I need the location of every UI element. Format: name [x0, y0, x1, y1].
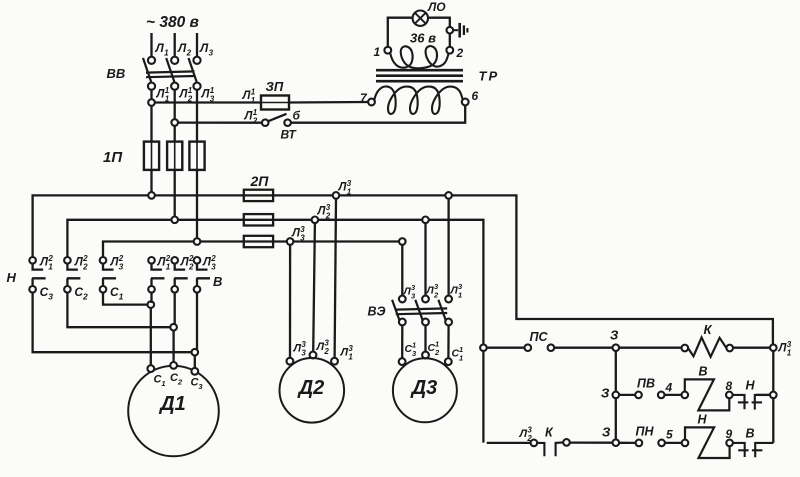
svg-text:1: 1 [787, 349, 792, 358]
wire PV to coil V [665, 394, 682, 396]
coil K right terminal [726, 345, 733, 352]
wire C2 to column 2 [67, 293, 170, 328]
svg-text:~ 380 в: ~ 380 в [146, 14, 199, 31]
wire tap L2' to switch VT [178, 121, 262, 123]
wire L3 to fuse [196, 90, 198, 143]
svg-text:Л: Л [177, 41, 187, 55]
svg-text:ВТ: ВТ [281, 128, 298, 142]
node 3 top [613, 344, 620, 351]
switch VV lower contact L3' [193, 83, 200, 90]
bus A wire [33, 195, 773, 344]
contact K [537, 443, 544, 456]
wire node3 vertical [615, 351, 617, 439]
svg-text:ПН: ПН [636, 425, 655, 439]
svg-text:5: 5 [666, 428, 673, 442]
svg-text:Л: Л [293, 343, 302, 355]
svg-text:Л: Л [155, 41, 165, 55]
svg-text:Л: Л [519, 428, 528, 440]
svg-text:4: 4 [665, 381, 673, 395]
junction column2 [170, 324, 177, 331]
wire bus B to D2 [313, 223, 315, 352]
svg-text:В: В [746, 427, 755, 441]
wire bus A to D2 [335, 199, 336, 358]
svg-text:3: 3 [301, 349, 306, 358]
svg-text:1: 1 [48, 263, 53, 272]
switch VT blade [268, 114, 286, 121]
contactor V contact 2 [171, 257, 178, 264]
contact V break [733, 443, 745, 457]
wire right vertical [772, 351, 774, 443]
wire control bottom left [487, 442, 531, 444]
svg-text:3: 3 [209, 49, 214, 58]
node 8 [726, 392, 733, 399]
svg-text:1: 1 [251, 96, 256, 105]
wire VE to D3 mid [424, 325, 426, 351]
wire C3 to column 3 [33, 293, 192, 353]
motor D1 terminal C3 [191, 368, 198, 375]
contact K terminal right [563, 439, 570, 446]
junction bus C / L3 [194, 238, 201, 245]
transformer TP core [376, 69, 463, 72]
wire L1 to tap [150, 90, 152, 100]
fuses 1P [144, 142, 159, 170]
wire C1 to column 1 [103, 293, 148, 305]
svg-text:б: б [293, 109, 301, 123]
junction column1 [148, 301, 155, 308]
svg-text:1: 1 [166, 263, 171, 272]
switch VE bottom contact 1 [445, 319, 452, 326]
svg-text:8: 8 [726, 379, 733, 393]
wire tap to terminal 2 [449, 34, 451, 47]
svg-text:2: 2 [82, 292, 88, 302]
wire coil K to node L1-3 [733, 347, 770, 349]
wire VT to terminal 6 [291, 106, 465, 123]
svg-text:Н: Н [698, 413, 708, 427]
svg-text:К: К [545, 426, 554, 440]
wire L3 fuse to bus C [196, 170, 198, 242]
svg-text:1: 1 [347, 188, 352, 197]
wire node 3 to coil K [619, 347, 681, 349]
svg-text:К: К [704, 322, 713, 337]
wire column3 to D1 [195, 293, 197, 368]
wire L2 tap to fuse [174, 126, 176, 142]
wire tap L1' to fuse 3P [155, 101, 261, 103]
svg-text:Л: Л [316, 341, 325, 353]
junction bus B / L2 [171, 217, 178, 224]
switch VE top contact 3 [399, 296, 406, 303]
svg-text:Д2: Д2 [297, 377, 325, 399]
contactor N contact 3 [100, 257, 107, 264]
switch VE bottom contact 3 [399, 319, 406, 326]
coil N [685, 427, 730, 458]
coil V [685, 379, 730, 410]
motor D3 terminal right [445, 358, 452, 365]
wire L2 to tap [174, 90, 176, 120]
motor D2 terminal right [331, 358, 338, 365]
svg-text:1П: 1П [103, 149, 123, 166]
motor D1 terminal C2 [170, 362, 177, 369]
wire VE to D3 right [447, 325, 450, 358]
switch VE top contact 1 [445, 296, 452, 303]
ground [453, 29, 458, 31]
svg-text:Н: Н [7, 270, 17, 285]
svg-text:Д3: Д3 [410, 377, 438, 399]
svg-text:ЗП: ЗП [266, 79, 284, 94]
svg-text:2П: 2П [250, 173, 270, 189]
svg-text:9: 9 [726, 427, 733, 441]
wire bus C to D2 [289, 245, 291, 358]
wire L3 drop [196, 33, 198, 57]
wire PS to node 3 [554, 347, 612, 349]
contact K terminal left [531, 440, 538, 447]
svg-text:3: 3 [300, 234, 305, 243]
svg-text:ПС: ПС [530, 330, 549, 344]
node L3 [193, 57, 200, 64]
svg-text:2: 2 [252, 117, 258, 126]
svg-text:1: 1 [374, 45, 381, 59]
wire VE to D3 left [401, 325, 403, 358]
terminal 1 [384, 47, 391, 54]
terminal 7 [368, 99, 375, 106]
svg-text:Л: Л [340, 347, 349, 359]
node right mid [770, 392, 777, 399]
node bus B / VE column [422, 217, 429, 224]
node 3 bottom [613, 439, 620, 446]
motor D3 [393, 358, 457, 422]
node bus A / VE column [445, 192, 452, 199]
switch VT left contact [262, 119, 269, 126]
svg-text:ЛО: ЛО [427, 0, 446, 14]
wire L2 drop [174, 33, 176, 57]
svg-text:З: З [610, 328, 619, 343]
node L1-3 right [770, 344, 777, 351]
wire mid row to right vertical [756, 394, 770, 396]
junction column3 [192, 349, 199, 356]
fuses 2P [244, 190, 273, 201]
coil N left terminal [682, 440, 689, 447]
lamp LO [413, 11, 428, 26]
switch VE top contact 2 [422, 296, 429, 303]
svg-text:2: 2 [188, 263, 194, 272]
wire bus A to VE [447, 199, 449, 296]
node bus C corner [399, 238, 406, 245]
motor D2 [280, 358, 345, 423]
wire L1 drop [150, 33, 152, 57]
motor D2 terminal mid [310, 352, 317, 359]
pushbutton PV [635, 392, 642, 399]
switch VT right contact [284, 119, 291, 126]
svg-text:2: 2 [456, 46, 464, 60]
wire L1 fuse to bus A [150, 170, 152, 196]
motor D2 terminal left [287, 358, 294, 365]
wire lamp to ground tap [429, 18, 450, 27]
transformer TP secondary winding [390, 46, 448, 68]
motor D1 terminal C1 [147, 365, 154, 372]
contactor N contact 1 [29, 257, 36, 264]
contactor V contact 1 [148, 257, 155, 264]
wire PN to coil N [665, 442, 682, 444]
switch VE blades and tie bars [392, 300, 399, 321]
svg-text:2: 2 [186, 49, 192, 58]
svg-text:ВЭ: ВЭ [368, 305, 386, 319]
node tap L2' [171, 119, 178, 126]
contact N break [733, 395, 745, 409]
node L2 [171, 57, 178, 64]
svg-text:1: 1 [348, 353, 353, 362]
motor D3 terminal left [399, 358, 406, 365]
wire node3 to PV [619, 394, 635, 396]
pushbutton PN [636, 440, 643, 447]
node ground tap [447, 27, 454, 34]
switch VV lower contact L1' [148, 83, 155, 90]
junction bus A / L1 [148, 192, 155, 199]
wire bus B to VE [424, 223, 426, 296]
wire L2 fuse to bus B [174, 170, 176, 220]
svg-text:3: 3 [119, 263, 124, 272]
svg-text:1: 1 [161, 379, 165, 388]
node L2-3 on bus B [312, 217, 319, 224]
wire node3 to PN [619, 442, 636, 444]
wire left node to PS [487, 347, 525, 349]
node 9 [726, 440, 733, 447]
pushbutton PS [525, 344, 532, 351]
node control left top [480, 344, 487, 351]
svg-text:2: 2 [433, 291, 439, 300]
svg-text:6: 6 [472, 89, 479, 103]
node L1-3 on bus A [333, 192, 340, 199]
fuse 3P [261, 96, 289, 110]
wire contact K to node 3 [570, 441, 613, 443]
svg-text:1: 1 [459, 354, 463, 363]
node 3 mid [613, 392, 620, 399]
node tap L1' [148, 99, 155, 106]
bus C wire [103, 242, 402, 296]
svg-text:Д1: Д1 [158, 393, 186, 415]
svg-text:В: В [699, 365, 708, 379]
svg-text:1: 1 [458, 291, 462, 300]
motor D3 terminal mid [422, 352, 429, 359]
svg-text:1: 1 [119, 292, 124, 302]
svg-text:3: 3 [48, 292, 53, 302]
coil K left terminal [682, 345, 689, 352]
svg-text:З: З [602, 425, 611, 440]
svg-text:2: 2 [434, 348, 440, 357]
wire column1 to D1 [150, 293, 153, 366]
svg-text:36 в: 36 в [410, 31, 436, 46]
svg-text:2: 2 [325, 212, 331, 221]
transformer TP primary winding [374, 86, 462, 113]
svg-text:Л: Л [199, 41, 209, 55]
terminal 2 [446, 47, 453, 54]
switch VE bottom contact 2 [422, 319, 429, 326]
svg-text:1: 1 [164, 49, 169, 58]
contactor V contact 3 [194, 257, 201, 264]
svg-text:З: З [601, 386, 610, 401]
svg-text:Н: Н [746, 379, 756, 393]
switch VV blades and tie bars [143, 58, 151, 82]
coil V left terminal [682, 392, 689, 399]
svg-text:ПВ: ПВ [637, 377, 655, 391]
node L1 [148, 57, 155, 64]
terminal 6 [462, 99, 469, 106]
wire fuse 3P to terminal 7 [289, 101, 368, 104]
wire L1 tap to fuse [150, 106, 152, 142]
svg-text:3: 3 [211, 263, 216, 272]
svg-text:ТР: ТР [479, 69, 500, 84]
switch VV lower contact L2' [171, 83, 178, 90]
node L3-3 on bus C [287, 238, 294, 245]
motor D1 [128, 366, 219, 457]
contactor N contact 2 [64, 257, 71, 264]
svg-text:В: В [213, 274, 222, 289]
coil K zigzag [688, 337, 726, 356]
svg-text:2: 2 [323, 347, 329, 356]
svg-text:2: 2 [82, 263, 88, 272]
svg-text:2: 2 [177, 378, 183, 387]
wire column2 to D1 [174, 293, 175, 362]
wire terminal1 to lamp [388, 18, 412, 47]
bus B wire [67, 220, 483, 443]
svg-text:ВВ: ВВ [107, 66, 126, 81]
